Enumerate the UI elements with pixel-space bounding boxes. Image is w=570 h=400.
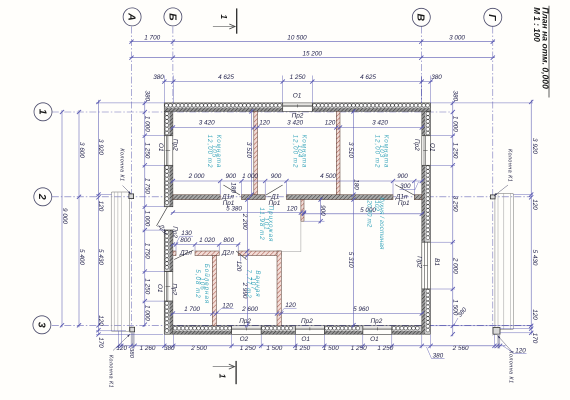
svg-text:1 260: 1 260 [140, 345, 156, 352]
svg-text:Д2л: Д2л [179, 250, 192, 257]
svg-text:1 500: 1 500 [266, 345, 282, 352]
svg-text:120: 120 [97, 201, 104, 212]
dimension row rooms: 3 420 / 120 / 3 420 / 120 / 3 420 [171, 119, 424, 129]
label Колонна К1 (lower right) [498, 336, 514, 384]
window О1 center in bottom wall [295, 326, 324, 335]
svg-text:3 510: 3 510 [347, 142, 354, 158]
svg-text:Пр2: Пр2 [415, 256, 422, 268]
svg-text:Колонна К1: Колонна К1 [108, 355, 114, 388]
partition above bathroom [238, 251, 281, 256]
svg-text:5 310: 5 310 [347, 252, 354, 268]
grid bubble 1 [34, 103, 52, 121]
svg-text:180: 180 [352, 179, 359, 190]
svg-text:1 250: 1 250 [351, 345, 367, 352]
ramp deck at axis Г (right) [495, 193, 514, 329]
svg-text:1: 1 [219, 14, 229, 19]
exterior wall, right, segment between О1 and door В1 [422, 165, 431, 242]
exterior wall, bottom, right of last window О1 [392, 326, 422, 335]
room label Комната 105 [206, 135, 222, 169]
svg-text:2 000: 2 000 [451, 257, 458, 274]
svg-text:5 960: 5 960 [353, 306, 369, 313]
svg-text:170: 170 [97, 337, 104, 348]
svg-text:Пр2: Пр2 [171, 139, 178, 151]
svg-text:1 750: 1 750 [143, 243, 150, 259]
room chain: 1 700 / 2 600 / 5 960 [171, 306, 424, 316]
svg-text:1 250: 1 250 [290, 74, 306, 81]
stub wall dimension 900 [319, 198, 326, 224]
svg-text:Пр1: Пр1 [398, 200, 410, 207]
svg-text:Пр2: Пр2 [171, 226, 178, 238]
svg-text:1 000: 1 000 [143, 305, 150, 321]
column К1 at Г/3 [493, 328, 500, 335]
dimension row at bearing wall: 2 000 / 900 / 1 000 / 900 / 4 500 / 900 / 300 [171, 173, 424, 183]
svg-text:2 200: 2 200 [241, 213, 248, 230]
svg-text:О1: О1 [370, 336, 379, 343]
svg-text:120: 120 [235, 261, 242, 272]
svg-text:380: 380 [153, 74, 164, 81]
interior partition between rooms 105 and 104 [254, 111, 258, 194]
svg-text:3 600: 3 600 [78, 142, 85, 158]
svg-text:7,77 m2: 7,77 m2 [245, 269, 252, 298]
svg-text:800: 800 [180, 237, 191, 244]
section mark 1 (top) [213, 8, 237, 33]
interior bearing wall segment, right of door Д1п [414, 195, 422, 200]
door leaf Д1п (room 103) [395, 185, 414, 195]
door leaf Д1 (room 104) [266, 185, 283, 195]
column projection bar below right column [497, 334, 500, 348]
left chain: 3 600 / 5 400 [77, 110, 85, 328]
svg-text:Г: Г [486, 14, 498, 21]
svg-text:120: 120 [325, 119, 336, 126]
svg-text:120: 120 [531, 309, 538, 320]
svg-text:О1: О1 [156, 284, 163, 293]
svg-text:3 510: 3 510 [245, 142, 252, 158]
window О2 in bottom wall [232, 326, 262, 335]
svg-text:170: 170 [531, 333, 538, 344]
svg-text:Пр1: Пр1 [269, 200, 281, 207]
door opening Дгн jambs in left wall [164, 206, 173, 208]
svg-text:3 920: 3 920 [531, 138, 538, 154]
interior bearing wall segment, between Д1 and Д1п [287, 195, 394, 200]
svg-text:900: 900 [397, 173, 408, 180]
svg-text:380: 380 [451, 91, 458, 102]
svg-text:5 430: 5 430 [531, 250, 538, 266]
svg-text:О1: О1 [293, 92, 302, 99]
exterior wall, left, segment between О1 and door Дгн [164, 165, 173, 206]
grid bubble Г [484, 8, 502, 26]
svg-text:М 1 : 100: М 1 : 100 [532, 7, 541, 42]
dimension row: 380 / 4 625 / 1 250 / 4 625 / 380 [153, 74, 442, 84]
svg-text:5,08 m2: 5,08 m2 [194, 269, 201, 298]
kitchen width dimension 5 000 [302, 207, 424, 216]
svg-text:4 625: 4 625 [218, 74, 234, 81]
svg-text:102: 102 [373, 200, 380, 211]
svg-text:5 430: 5 430 [97, 249, 104, 265]
svg-text:Колонна К1: Колонна К1 [118, 148, 124, 181]
svg-text:1 500: 1 500 [323, 345, 339, 352]
svg-text:1: 1 [36, 109, 48, 115]
axis line Г (vertical) [492, 27, 494, 337]
svg-text:Д2л: Д2л [221, 250, 234, 257]
axis line 3 (horizontal) [52, 324, 532, 326]
svg-text:3 420: 3 420 [372, 119, 388, 126]
window О1 in top wall [283, 103, 313, 112]
svg-text:900: 900 [271, 173, 282, 180]
svg-text:В1: В1 [433, 258, 440, 266]
svg-text:2 000: 2 000 [188, 173, 205, 180]
exterior wall, bottom, left of window О2 [173, 326, 232, 335]
svg-text:1 250: 1 250 [294, 345, 310, 352]
svg-text:О1: О1 [157, 143, 164, 152]
svg-text:3 920: 3 920 [97, 139, 104, 155]
drawing title: План на отм. 0,000 [540, 6, 550, 98]
column projection bar below left column [131, 332, 135, 348]
svg-text:380: 380 [128, 348, 134, 358]
exterior wall, right, segment above window О1 [422, 111, 431, 135]
right chain: 3 920 / 120 / 5 430 / 120 / 170 [529, 100, 538, 344]
dimension row: 15 200 [129, 50, 495, 60]
kitchen depth dimension 5 310 [347, 198, 355, 328]
room label Ванная 107 [245, 269, 261, 298]
svg-text:1 000: 1 000 [451, 116, 458, 132]
svg-text:3: 3 [35, 322, 47, 328]
svg-text:1 250: 1 250 [240, 345, 256, 352]
svg-text:Колонна К1: Колонна К1 [507, 149, 513, 182]
svg-text:120: 120 [97, 315, 104, 326]
door В1 in right wall [422, 242, 431, 289]
svg-text:120: 120 [116, 345, 127, 352]
svg-text:180: 180 [230, 182, 237, 193]
svg-text:900: 900 [226, 173, 237, 180]
door leaf Д2л (bathroom) [236, 251, 246, 260]
svg-text:1 250: 1 250 [451, 143, 458, 159]
grid bubble 2 [34, 188, 52, 206]
room depth dimension 3 510 (right) [347, 109, 355, 197]
dimension row: 1 700 / 10 500 / 3 000 [129, 34, 495, 44]
extension lines boiler door jambs [176, 245, 238, 251]
exterior wall, left, segment below lower window О1 [164, 301, 173, 334]
extension lines from top wall to dimension rows [164, 76, 430, 103]
svg-text:1 250: 1 250 [143, 143, 150, 159]
svg-text:120: 120 [259, 119, 270, 126]
window О1 upper in left wall [164, 136, 173, 166]
window О1 right in bottom wall [363, 326, 392, 335]
bottom chain: 120/380/1260/380/2500/1250/1500/1250/1500/1250/1250/2560 [116, 344, 505, 352]
interior bearing wall segment, left of door Д1л [173, 195, 220, 200]
section mark 1 (bottom) [213, 361, 236, 384]
svg-text:900: 900 [319, 205, 326, 216]
room label Прихожая 101 [258, 206, 274, 243]
extension lines door jambs to chain [220, 182, 414, 195]
axis line А (vertical) [131, 27, 133, 337]
axis line В (vertical) [420, 27, 422, 104]
svg-text:380: 380 [143, 91, 150, 102]
svg-text:Пр2: Пр2 [413, 139, 420, 151]
svg-text:Пр2: Пр2 [301, 318, 313, 325]
svg-text:1 000: 1 000 [143, 210, 150, 226]
svg-text:120: 120 [531, 199, 538, 210]
window О1 in right wall [422, 136, 431, 166]
partition between boiler room and bathroom [212, 256, 216, 326]
hall depth 2 200 / bathroom depth 2 990 [241, 198, 249, 328]
svg-text:В: В [415, 14, 427, 22]
right extension lines [431, 103, 533, 333]
left chain: 9 000 [60, 110, 68, 328]
svg-text:15 200: 15 200 [302, 50, 322, 57]
door chain: 800 / 1 020 / 800 [171, 237, 241, 247]
svg-text:12,00 m2: 12,00 m2 [292, 135, 299, 169]
svg-text:Колонна К1: Колонна К1 [508, 350, 514, 383]
svg-text:20,00 m2: 20,00 m2 [366, 199, 373, 227]
door leaf Д1л (room 105) [223, 185, 240, 195]
axis line 1 (horizontal) [52, 111, 454, 113]
svg-text:380: 380 [431, 74, 442, 81]
svg-text:2 560: 2 560 [452, 345, 469, 352]
svg-text:Б: Б [166, 13, 178, 21]
exterior wall, top, left of window О1 [164, 103, 282, 112]
axis line Б (vertical) [172, 27, 174, 104]
interior partition between rooms 104 and 103 [336, 111, 340, 194]
svg-text:1 250: 1 250 [143, 278, 150, 294]
svg-text:1 700: 1 700 [184, 306, 200, 313]
partition between doors Д2л [195, 251, 219, 256]
svg-text:2: 2 [36, 193, 48, 200]
svg-text:Пр2: Пр2 [171, 283, 178, 295]
svg-text:1 000: 1 000 [242, 173, 258, 180]
door leaf Д2л (boiler room) [174, 250, 193, 260]
exterior wall, left, segment between door Дгн and lower О1 [164, 230, 173, 271]
room label Комната 104 [292, 135, 308, 169]
svg-text:12,00 m2: 12,00 m2 [206, 135, 213, 169]
svg-text:О1: О1 [429, 143, 436, 152]
left chain: 3 920 / 120 / 5 430 / 120 / 170 [96, 100, 104, 348]
partition between bathroom and kitchen [277, 251, 281, 326]
svg-text:5 400: 5 400 [78, 249, 85, 265]
svg-text:А: А [126, 12, 138, 21]
room label Комната 103 [374, 135, 390, 169]
svg-text:3 420: 3 420 [199, 119, 215, 126]
grid bubble 3 [33, 316, 51, 334]
svg-text:1 700: 1 700 [144, 34, 160, 41]
room label Кухня / гостиная 102 [366, 197, 385, 250]
svg-text:4 500: 4 500 [320, 173, 336, 180]
grid bubble А [123, 8, 141, 26]
partition above boiler room, left piece [173, 251, 176, 256]
room depth dimension 3 510 (left) [245, 109, 253, 197]
grid bubble Б [164, 8, 182, 26]
svg-text:11,98 m2: 11,98 m2 [258, 207, 265, 240]
svg-text:3 250: 3 250 [451, 196, 458, 212]
svg-text:О2: О2 [240, 336, 249, 343]
svg-text:1: 1 [218, 374, 228, 379]
column К1 at А/2 [129, 194, 134, 199]
svg-text:Пр2: Пр2 [371, 318, 383, 325]
label Колонна К1 (upper right) [494, 149, 513, 196]
ramp deck at axis А (left) [111, 192, 129, 331]
axis line 2 (horizontal) [52, 196, 532, 198]
interior bearing wall segment, between Д1л and Д1 [242, 195, 266, 200]
svg-text:1 020: 1 020 [199, 237, 215, 244]
svg-text:120: 120 [287, 206, 298, 213]
exterior wall, bottom, between windows О1 [324, 326, 362, 335]
door leaf Дгн (entry, left wall) [157, 207, 168, 226]
svg-text:1 250: 1 250 [377, 345, 393, 352]
svg-text:12,00 m2: 12,00 m2 [374, 135, 381, 169]
hall width dimension 5 380 and stub 120 [171, 206, 306, 215]
partition stub at hall boundary [301, 200, 304, 222]
exterior wall, top, right of window О1 [312, 103, 430, 112]
svg-text:О1: О1 [301, 336, 310, 343]
svg-text:1 000: 1 000 [143, 116, 150, 132]
right wall chain: 380/1000/1250/3250/2000/1500 [451, 91, 459, 337]
svg-text:Пр1: Пр1 [223, 200, 235, 207]
left wall chain: 380/1000/1250/1750/1000/1750/1250/1000 [143, 91, 151, 327]
svg-text:9 000: 9 000 [61, 208, 68, 224]
label Колонна К1 (upper left) [118, 148, 131, 194]
window О1 lower in left wall [164, 272, 173, 302]
label Колонна К1 (lower left) [108, 334, 131, 388]
grid bubble В [412, 8, 430, 26]
svg-text:3 420: 3 420 [287, 119, 303, 126]
exterior wall, bottom, between О2 and О1 [261, 326, 295, 335]
left extension lines [96, 103, 164, 335]
extension line for stub 900 dimension [304, 220, 325, 222]
svg-text:2 500: 2 500 [190, 345, 207, 352]
svg-text:3 000: 3 000 [449, 34, 465, 41]
column К1 at Г/2 [490, 195, 495, 199]
svg-text:800: 800 [223, 237, 234, 244]
room label Бойлерная 106 [194, 264, 210, 304]
bottom extension lines [119, 331, 495, 348]
svg-text:4 625: 4 625 [360, 74, 376, 81]
svg-text:10 500: 10 500 [287, 34, 307, 41]
svg-text:Пр2: Пр2 [239, 318, 251, 325]
svg-text:1 750: 1 750 [143, 178, 150, 194]
column К1 at А/3 [130, 327, 135, 332]
svg-text:2 600: 2 600 [241, 306, 258, 313]
exterior wall, left, segment above window О1 [164, 111, 173, 135]
svg-text:300: 300 [400, 183, 411, 190]
hall open boundary line [300, 221, 302, 252]
exterior wall, right, segment below door В1 [422, 289, 431, 334]
